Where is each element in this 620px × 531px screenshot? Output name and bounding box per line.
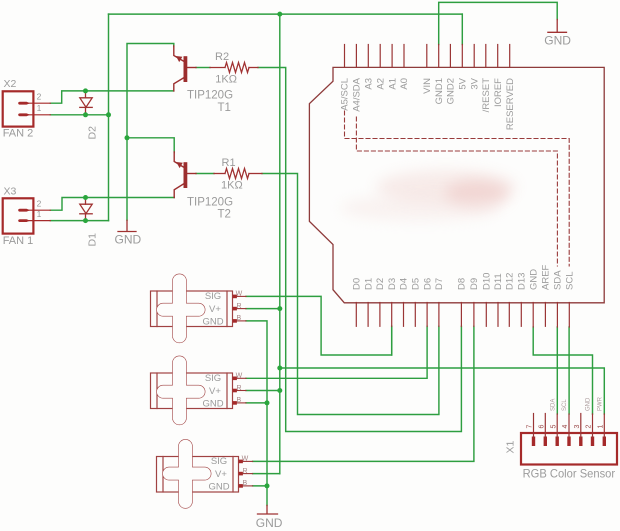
svg-text:GND: GND [528,269,539,290]
pin D3 stub [391,303,393,327]
pin X3-1 lead [28,220,50,222]
pin D9 stub [473,303,475,327]
arduino board U1 outline [309,67,604,302]
pin GND2 stub [449,45,451,68]
wire 5V to sensor PWR pin1 [280,368,605,414]
svg-text:W: W [236,373,243,380]
wire X3 pin1 to 5V rail [50,220,108,222]
svg-text:D1: D1 [87,233,99,247]
pin X2-2 lead [28,102,50,104]
svg-text:GND1: GND1 [434,78,445,104]
svg-text:R: R [237,303,242,310]
svg-text:2: 2 [37,92,42,102]
node D1 cathode junction [83,218,88,223]
svg-text:D6: D6 [422,278,433,290]
servo M1 [151,274,247,342]
diode D2 [80,91,92,115]
pin GND stub [532,303,534,328]
svg-text:T1: T1 [218,102,231,114]
pin 3 X1 lead [580,414,582,438]
pin A2 stub [379,45,381,68]
svg-text:B: B [243,480,248,487]
servo M2 leads [237,378,246,403]
node D2 cathode junction [83,112,88,117]
pin D13 stub [520,303,522,327]
svg-text:D9: D9 [469,278,480,290]
svg-text:A0: A0 [399,78,410,90]
svg-text:RGB Color Sensor: RGB Color Sensor [523,467,616,481]
wire arduino GND pin to sensor pin2 [533,327,592,414]
svg-text:PWR: PWR [597,396,603,411]
pin SCL stub [568,303,570,328]
svg-text:7: 7 [527,425,534,429]
svg-text:D0: D0 [352,278,363,290]
pin D12 stub [508,303,510,327]
svg-text:6: 6 [538,425,545,429]
pin 7 X1 lead [533,414,535,438]
dashed bus A4/SDA to SDA [356,117,557,266]
T2 base lead [187,173,196,175]
pin D1 stub [367,303,369,327]
node 5V rail junction [277,12,282,17]
svg-text:A3: A3 [364,78,375,90]
svg-text:D3: D3 [387,278,398,290]
svg-text:AREF: AREF [541,264,552,290]
pin A4/SDA stub [355,45,357,68]
svg-text:1: 1 [37,209,42,219]
svg-text:D8: D8 [457,278,468,290]
pin D10 stub [485,303,487,327]
arduino bottom pin stubs [356,303,569,328]
svg-text:GND: GND [202,399,223,410]
node servo2 V+ junction [277,388,282,393]
pin SDA stub [556,303,558,328]
pad X1-2 [591,437,594,447]
svg-text:A2: A2 [375,78,386,90]
wire X2 pin1 to 5V rail [50,114,108,116]
servo M2 pads [233,377,237,405]
svg-text:D2: D2 [375,278,386,290]
pin RESERVED stub [509,45,511,68]
wire T1 base gap [196,67,210,69]
svg-text:R: R [237,385,242,392]
svg-text:/RESET: /RESET [481,78,492,113]
resistor R1 [214,169,262,179]
node 5V sensor branch junction [277,366,282,371]
svg-text:1KΩ: 1KΩ [215,74,237,86]
svg-text:SIG: SIG [205,291,221,302]
pin /RESET stub [485,45,487,68]
svg-text:W: W [242,456,249,463]
X1 pads [532,437,606,447]
pin 5 X1 lead [556,414,558,437]
svg-text:SDA: SDA [550,399,556,411]
servo M1 leads [237,296,246,321]
node emitter GND junction [125,135,130,140]
wire T1 emitter to GND net [127,44,174,221]
node X2 pin1 5V junction [106,112,111,117]
wire R1 to D7 [262,174,439,415]
pin D2 stub [379,303,381,327]
T2 collector line [174,184,184,198]
svg-text:D2: D2 [87,126,99,140]
wire 5V left drop to fan pin1 rail [108,14,110,221]
svg-text:D12: D12 [505,273,516,290]
pin D5 stub [414,303,416,327]
svg-text:GND: GND [256,516,283,530]
wire T2 emitter branch [127,138,174,153]
svg-text:SCL: SCL [562,399,568,411]
svg-text:SIG: SIG [211,456,227,467]
pin 6 X1 lead [544,414,546,438]
svg-text:IOREF: IOREF [493,78,504,107]
svg-text:TIP120G: TIP120G [187,90,233,102]
svg-text:D4: D4 [399,278,410,290]
svg-text:D1: D1 [363,278,374,290]
svg-text:TIP120G: TIP120G [187,197,233,209]
pin 2 X1 lead [592,414,594,437]
svg-text:R1: R1 [222,157,236,169]
X1 pin stubs [534,414,605,438]
wire SDA to sensor pin5 [556,327,558,414]
pad X1-6 [544,437,547,447]
pin 3V stub [473,45,475,68]
svg-text:SDA: SDA [553,270,564,290]
servo M3 leads [243,461,253,486]
connector X2 [3,91,51,126]
arduino bottom pin labels [352,264,576,290]
svg-text:1: 1 [37,103,42,113]
T1 emitter line [174,46,184,62]
svg-text:SCL: SCL [565,272,576,290]
svg-text:GND: GND [115,233,142,247]
svg-text:1KΩ: 1KΩ [221,180,243,192]
node D1 anode junction [83,195,88,200]
svg-text:2: 2 [37,199,42,209]
wire servo3 GND branch [253,485,267,487]
svg-text:X3: X3 [4,186,17,198]
pin 4 X1 lead [568,414,570,437]
wire X2 pin2 to T1 collector [50,91,174,103]
wire GND1 pin to GND symbol top right [439,2,558,44]
pad X1-7 [532,437,535,447]
transistor T1 [174,46,196,91]
svg-text:R: R [243,468,248,475]
svg-text:GND: GND [586,397,592,411]
wire D3 green stub [391,326,393,355]
servo M1 pads [233,295,237,323]
pin X3-2 lead [28,209,50,211]
pin D8 stub [460,303,462,327]
svg-text:GND: GND [544,33,571,47]
wire servo2 V+ [246,390,280,392]
wire servo2 GND branch [246,402,267,404]
watermark blur [340,170,516,221]
pin X3-1 pad [19,220,29,222]
wire servo GND chain [246,321,267,506]
ground symbol bottom [258,505,278,514]
svg-text:GND: GND [208,482,229,493]
svg-text:GND: GND [202,317,223,328]
svg-text:B: B [237,315,242,322]
pad X1-3 [579,437,582,447]
svg-text:FAN 2: FAN 2 [3,128,34,140]
pin IOREF stub [497,45,499,68]
X1 signal labels [550,396,603,411]
pin AREF stub [544,303,546,327]
svg-text:D7: D7 [434,278,445,290]
T1 collector line [174,78,184,91]
svg-text:5: 5 [550,425,557,429]
svg-text:A5/SCL: A5/SCL [340,78,351,111]
wire servo3 SIG to D9 [253,326,474,461]
ground symbol top right [548,20,567,33]
wire SCL to sensor pin4 [568,327,570,414]
wire 5V mid rail to servos V+ [279,14,281,474]
node D2 anode junction [83,88,88,93]
wire servo1 SIG to D3 [246,296,392,355]
svg-text:FAN 1: FAN 1 [3,235,34,247]
wire servo3 V+ [253,473,280,475]
pin A1 stub [391,45,393,68]
servo M3 [157,440,253,508]
pin 1 X1 lead [603,414,605,437]
connector X1 RGB sensor [521,396,617,464]
servo M2 [151,356,247,424]
node servo1 V+ junction [277,306,282,311]
pin X2-1 pad [19,114,29,116]
pin X2-2 pad [19,102,29,104]
svg-text:B: B [237,397,242,404]
pin D7 stub [438,303,440,327]
pin VIN stub [426,45,428,68]
svg-text:5V: 5V [458,77,469,89]
pin A5/SCL stub [344,45,346,68]
pin D4 stub [403,303,405,327]
pad X1-5 [556,437,559,447]
svg-text:D11: D11 [493,273,504,290]
svg-text:VIN: VIN [422,78,433,94]
svg-text:V+: V+ [209,304,221,315]
wire R2 to D8 [258,68,461,432]
svg-text:V+: V+ [209,386,221,397]
pin X2-1 lead [28,114,50,116]
svg-text:1: 1 [597,425,604,429]
X1 pin numbers [527,425,605,429]
pin X3-2 pad [19,209,29,211]
T2 emitter line [174,152,184,168]
pad X1-1 [603,437,606,447]
pin A0 stub [403,45,405,68]
wire servo1 V+ [246,308,280,310]
node servo3 GND junction [265,483,270,488]
pin D6 stub [426,303,428,327]
svg-text:2: 2 [586,425,593,429]
connector X3 [3,198,51,233]
transistor T2 [174,152,196,198]
pad X1-4 [567,437,570,447]
pin D0 stub [355,303,357,327]
resistor R2 [210,63,258,73]
svg-text:D5: D5 [411,278,422,290]
svg-text:D13: D13 [517,273,528,290]
wire servo2 SIG to D6 [246,326,427,378]
pin A3 stub [367,45,369,68]
svg-text:A4/SDA: A4/SDA [352,77,363,111]
ground symbol left [118,220,136,231]
svg-text:W: W [236,291,243,298]
svg-text:X2: X2 [4,78,17,90]
wire 5V pin stub riser [461,14,463,44]
diode D1 [80,198,92,221]
pin D11 stub [497,303,499,327]
svg-text:X1: X1 [505,440,517,453]
servo M3 pads [239,460,243,488]
T1 base lead [187,67,196,69]
pin GND1 stub [438,45,440,68]
node servo2 GND junction [265,400,270,405]
pin 5V stub [461,45,463,68]
svg-text:R2: R2 [215,51,229,63]
wire X3 pin2 to T2 collector [50,198,174,211]
wire T2 base gap [196,173,214,175]
T2 emitter arrow [176,162,183,168]
svg-text:RESERVED: RESERVED [505,78,516,130]
svg-text:V+: V+ [215,469,227,480]
arduino top pin stubs [345,45,510,68]
arduino top pin labels [340,77,516,130]
wire 5V top rail [109,13,463,15]
svg-text:3: 3 [574,425,581,429]
svg-text:4: 4 [562,425,569,429]
svg-text:T2: T2 [218,208,231,220]
svg-text:SIG: SIG [205,373,221,384]
svg-text:GND2: GND2 [446,78,457,104]
svg-text:3V: 3V [469,77,480,89]
svg-text:A1: A1 [387,78,398,90]
svg-text:D10: D10 [482,273,493,290]
dashed bus A5/SCL to SCL [345,111,570,266]
T1 emitter arrow [176,56,183,62]
